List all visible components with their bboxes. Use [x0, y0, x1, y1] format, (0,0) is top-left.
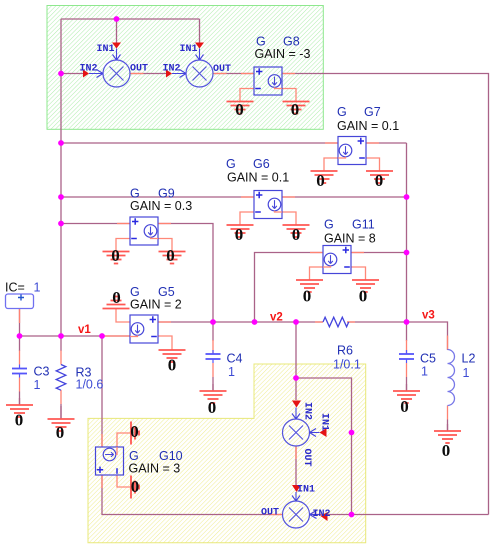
svg-text:0: 0: [442, 441, 451, 460]
wire G11 output to rail: [255, 253, 324, 323]
wire v1 to G10 output: [101, 336, 103, 447]
label G5 gain value: [130, 298, 182, 312]
svg-text:0: 0: [15, 411, 24, 430]
label G8 ref: [256, 35, 300, 49]
pin stub G6 out: [282, 196, 295, 198]
junction U3 IN1: [349, 430, 355, 436]
pin stub G11 plus: [351, 252, 364, 254]
svg-text:1/0.6: 1/0.6: [76, 378, 104, 392]
svg-text:0: 0: [316, 171, 325, 190]
arrow red U3 IN2: [292, 401, 301, 408]
wire v2 rail: [158, 321, 323, 323]
arrow red U1 IN1: [112, 43, 121, 49]
ground 0 under R3: [48, 406, 75, 442]
wire G6 output to v3 bus: [282, 196, 407, 198]
wire L2 to ground feed: [447, 420, 449, 431]
svg-text:0: 0: [359, 287, 368, 306]
arrow red U2 IN1: [195, 43, 204, 49]
svg-text:G6: G6: [253, 157, 270, 171]
label R6 value: [333, 358, 361, 372]
label L2 value: [463, 366, 470, 380]
pin stub G5 out bottom: [104, 335, 130, 337]
vccs G5: [130, 315, 158, 343]
label G11 ref: [324, 218, 375, 232]
svg-text:GAIN = 2: GAIN = 2: [130, 298, 182, 312]
pin name U4 IN1: [297, 485, 315, 496]
wire v3 bus vertical: [406, 143, 408, 322]
label C5 value: [421, 365, 428, 379]
pin stub G8 out: [282, 73, 295, 75]
svg-text:IN2: IN2: [313, 509, 331, 520]
junction v1/G10: [99, 333, 105, 339]
arrow blue U2 IN2: [172, 70, 186, 78]
arrow blue U1 IN1: [113, 49, 121, 61]
pin name U4 OUT: [261, 508, 279, 519]
svg-text:IN2: IN2: [302, 402, 313, 420]
PIN STUBS (salmon): [20, 74, 448, 515]
ground 0 under C5: [393, 384, 420, 416]
svg-text:IN1: IN1: [97, 44, 115, 55]
junction v2/G11: [252, 319, 258, 325]
svg-text:IC=: IC=: [5, 281, 25, 295]
arrow red U4 IN2: [321, 512, 328, 521]
arrow red U1 IN2: [83, 70, 89, 78]
pin name U1 OUT: [130, 64, 148, 75]
svg-text:0: 0: [375, 171, 384, 190]
label G6 ref: [226, 157, 270, 171]
junction v1/bus: [58, 333, 64, 339]
svg-text:0: 0: [235, 225, 244, 244]
multiplier U1: [103, 60, 130, 87]
junction bus/G6 row: [58, 194, 64, 200]
pin stub C3 bottom: [19, 378, 21, 392]
ground 0 G5 top flipped: [103, 288, 131, 322]
svg-text:GAIN = -3: GAIN = -3: [255, 47, 311, 61]
pin name U1 IN2: [80, 64, 98, 75]
wire bus to IN2 mult U1: [61, 73, 83, 75]
svg-text:0: 0: [292, 225, 301, 244]
ground 0 under C4: [200, 384, 227, 417]
ground 0 G6 left: [227, 212, 255, 244]
capacitor C4: [206, 350, 221, 363]
wire IN1 drop mult U2: [199, 19, 201, 43]
pin stub U4 IN2: [310, 514, 324, 516]
pin name U1 IN1: [97, 44, 115, 55]
vccs G10: [96, 447, 124, 475]
vccs G9: [130, 217, 158, 245]
label G7 ref: [337, 105, 381, 119]
svg-text:G: G: [337, 105, 347, 119]
svg-text:0: 0: [303, 287, 312, 306]
wire G9 output down to node v2 rail: [158, 224, 213, 323]
multiplier U3: [283, 419, 310, 446]
svg-text:0: 0: [112, 288, 121, 307]
wire U4 IN2 to right edge: [310, 514, 489, 516]
svg-text:C3: C3: [34, 365, 50, 379]
arrow blue U1 IN2: [89, 70, 103, 78]
svg-text:1: 1: [34, 281, 41, 295]
pin name U2 OUT: [213, 64, 231, 75]
label IC value 1: [34, 281, 41, 295]
pin name U2 IN2: [163, 64, 181, 75]
wire C5 to ground feed: [406, 377, 408, 391]
pin stub G10 out top: [101, 434, 103, 447]
ground 0 G5 right: [158, 336, 186, 375]
wire v3 rail segment: [347, 322, 448, 350]
svg-text:0: 0: [130, 422, 139, 441]
svg-text:0: 0: [291, 100, 300, 119]
junction v3/C5: [404, 319, 410, 325]
svg-text:OUT: OUT: [213, 64, 231, 75]
label C3 value: [34, 378, 41, 392]
label G8 gain value: [255, 47, 311, 61]
pin stub C5 bottom: [406, 363, 408, 377]
label IC= text: [5, 281, 25, 295]
pin stub IC bottom: [19, 309, 21, 323]
pin stub U2 OUT: [213, 73, 227, 75]
label G10 gain value: [129, 462, 181, 476]
pin stub G6 plus: [241, 196, 254, 198]
label R3 value: [76, 378, 104, 392]
ground 0 G9 left: [103, 239, 131, 266]
wire C3 feed: [19, 336, 21, 351]
svg-text:1: 1: [228, 365, 235, 379]
arrow blue U4 IN1: [292, 492, 300, 501]
capacitor C5: [399, 350, 414, 363]
resistor R3: [56, 365, 66, 391]
vccs G8: [254, 67, 282, 95]
arrow blue U2 IN1: [196, 49, 204, 61]
pin stub G5 plus: [158, 321, 171, 323]
arrow blue U4 IN2: [310, 511, 321, 519]
wire left bus vertical: [60, 19, 62, 336]
svg-text:1: 1: [463, 366, 470, 380]
svg-text:G: G: [324, 218, 334, 232]
pin stub L2 bottom: [447, 406, 449, 420]
pin name U4 IN2: [313, 509, 331, 520]
svg-text:GAIN = 0.3: GAIN = 0.3: [130, 199, 192, 213]
green hatched region (top-left): [47, 6, 323, 130]
svg-text:0: 0: [111, 246, 120, 265]
ground 0 G7 left: [311, 158, 338, 190]
svg-text:IN2: IN2: [163, 64, 181, 75]
pin stub R3 bottom: [60, 390, 62, 404]
label G9 ref: [130, 187, 175, 201]
svg-text:IN1: IN1: [180, 44, 198, 55]
arrow blue U3 IN2: [292, 408, 300, 420]
pin stub G7 out: [325, 142, 338, 144]
wire U3 OUT to U4 IN1: [295, 446, 297, 485]
ground 0 G7 right: [366, 158, 394, 190]
pin stub L2 top: [447, 336, 449, 350]
pin stub U3 OUT: [295, 446, 297, 459]
svg-text:0: 0: [208, 398, 217, 417]
junction bus/IN2 row: [58, 71, 64, 77]
yellow hatched region (bottom): [88, 364, 366, 543]
ground 0 G11 left: [296, 267, 323, 306]
ground 0 G8 left: [227, 89, 255, 120]
pin stub G11 out: [310, 252, 323, 254]
pin stub C4 top: [212, 340, 214, 354]
label C4 value: [228, 365, 235, 379]
ground 0 G11 right: [351, 267, 379, 306]
ground 0 under C3: [6, 398, 33, 430]
ground 0 G10 bottom: [117, 475, 139, 499]
wire G8 output right then down right edge: [282, 74, 489, 515]
pin stub G9 plus: [117, 223, 130, 225]
wire C3 to ground feed: [19, 392, 21, 405]
svg-text:IN1: IN1: [297, 485, 315, 496]
node v1: [78, 324, 91, 336]
wire bus to G9 plus: [61, 223, 130, 225]
wire G11 plus to v3 bus: [351, 252, 407, 254]
svg-text:0: 0: [166, 246, 175, 265]
svg-text:1/0.1: 1/0.1: [333, 358, 361, 372]
ground 0 G8 right: [282, 89, 310, 120]
wire C5 feed: [406, 322, 408, 341]
junction v1/IC: [17, 333, 23, 339]
svg-text:G7: G7: [364, 105, 381, 119]
junction U4 IN2: [349, 512, 355, 518]
svg-text:OUT: OUT: [130, 64, 148, 75]
svg-text:0: 0: [400, 397, 409, 416]
ground 0 under L2: [434, 424, 461, 460]
svg-text:GAIN = 0.1: GAIN = 0.1: [337, 119, 399, 133]
label G9 gain value: [130, 199, 192, 213]
vccs G11: [323, 246, 351, 274]
capacitor C3: [12, 365, 27, 378]
wire U2 OUT to G8 plus: [213, 73, 254, 75]
wire bus to G7 output row: [61, 142, 338, 144]
pin stub C3 top: [19, 351, 21, 365]
svg-text:v2: v2: [270, 312, 283, 324]
junction bus/G9 row: [58, 221, 64, 227]
wire v2 down to junction: [295, 322, 297, 400]
pin name U2 IN1: [180, 44, 198, 55]
wire v1 rail: [20, 335, 131, 337]
junction top wire/U1 IN1: [114, 16, 120, 22]
junction v3 bus/G6: [404, 194, 410, 200]
svg-text:IN1: IN1: [319, 413, 330, 431]
svg-text:OUT: OUT: [301, 449, 312, 467]
wire R3 to ground feed: [60, 404, 62, 419]
multiplier U4: [283, 501, 310, 528]
svg-text:C4: C4: [227, 352, 243, 366]
svg-text:G: G: [226, 157, 236, 171]
arrow blue U3 IN1: [310, 429, 320, 437]
pin stub U1 OUT: [130, 73, 144, 75]
svg-text:1: 1: [34, 378, 41, 392]
node v3: [422, 310, 435, 322]
svg-text:1: 1: [421, 365, 428, 379]
svg-text:v1: v1: [78, 324, 91, 336]
wire IN1 drop mult U1: [116, 19, 118, 43]
junction v2/down: [293, 319, 299, 325]
node v2: [270, 312, 283, 324]
label R6 ref: [337, 344, 353, 358]
pin stub C5 top: [406, 340, 408, 354]
pin stub R3 top: [60, 351, 62, 365]
arrow red U4 IN1: [292, 485, 301, 492]
multiplier U2: [186, 60, 213, 87]
pin name U3 OUT rotated: [301, 449, 312, 467]
inductor L2: [448, 350, 455, 406]
svg-text:GAIN = 8: GAIN = 8: [324, 232, 376, 246]
arrow red U3 IN1: [320, 428, 327, 437]
wire top horizontal: [61, 18, 200, 20]
svg-text:R6: R6: [337, 344, 353, 358]
svg-text:GAIN = 0.1: GAIN = 0.1: [227, 171, 289, 185]
label G10 ref: [129, 449, 183, 463]
pin stub G8 plus: [241, 73, 254, 75]
junction v2/C4: [210, 319, 216, 325]
pin stub R6 right: [347, 321, 355, 323]
ground 0 G10 top: [117, 422, 139, 448]
ground 0 G6 right: [282, 212, 310, 244]
label G6 gain value: [227, 171, 289, 185]
label G5 ref: [130, 285, 175, 299]
wire U4 OUT rail to G10 plus: [102, 475, 283, 515]
pin name U3 IN1 rotated: [319, 413, 330, 431]
junction bus/G7 row: [58, 140, 64, 146]
svg-text:IN2: IN2: [80, 64, 98, 75]
svg-text:OUT: OUT: [261, 508, 279, 519]
pin stub U4 OUT: [269, 514, 283, 516]
svg-text:0: 0: [168, 356, 177, 375]
label C3 ref: [34, 365, 50, 379]
pin stub G9 out: [158, 223, 171, 225]
svg-text:0: 0: [56, 423, 65, 442]
pin stub R6 left: [315, 321, 323, 323]
wire IC drop: [19, 309, 21, 336]
label C4 ref: [227, 352, 243, 366]
arrow red U2 IN2: [166, 70, 172, 78]
svg-text:C5: C5: [420, 352, 436, 366]
vccs G7: [338, 137, 366, 165]
vccs G6: [254, 191, 282, 219]
svg-text:G11: G11: [352, 218, 375, 232]
svg-text:0: 0: [131, 477, 140, 496]
label G11 gain value: [324, 232, 376, 246]
pin stub C4 bottom: [212, 363, 214, 377]
resistor R6: [323, 317, 349, 327]
wire C4 to ground feed: [212, 377, 214, 391]
wire junction to right branch down: [296, 378, 352, 515]
label C5 ref: [420, 352, 436, 366]
ground 0 G9 right: [158, 239, 186, 266]
label L2 ref: [462, 352, 476, 366]
IC marker: [6, 294, 34, 309]
wire G7 plus to v3 bus: [366, 142, 407, 144]
svg-text:L2: L2: [462, 352, 476, 366]
label R3 ref: [76, 366, 92, 380]
wire R3 feed: [60, 336, 62, 351]
pin stub G10 plus: [101, 475, 103, 488]
junction v2 branch: [293, 375, 299, 381]
svg-text:v3: v3: [422, 310, 435, 322]
pin name U3 IN2 rotated: [302, 402, 313, 420]
svg-text:GAIN = 3: GAIN = 3: [129, 462, 181, 476]
svg-text:0: 0: [235, 100, 244, 119]
pin stub G7 plus: [366, 142, 379, 144]
label G7 gain value: [337, 119, 399, 133]
wire C4 feed: [212, 322, 214, 341]
junction v3 bus/G11: [404, 250, 410, 256]
wire bus to G6 plus: [61, 196, 254, 198]
wire U1 OUT to U2 IN2: [130, 73, 166, 75]
